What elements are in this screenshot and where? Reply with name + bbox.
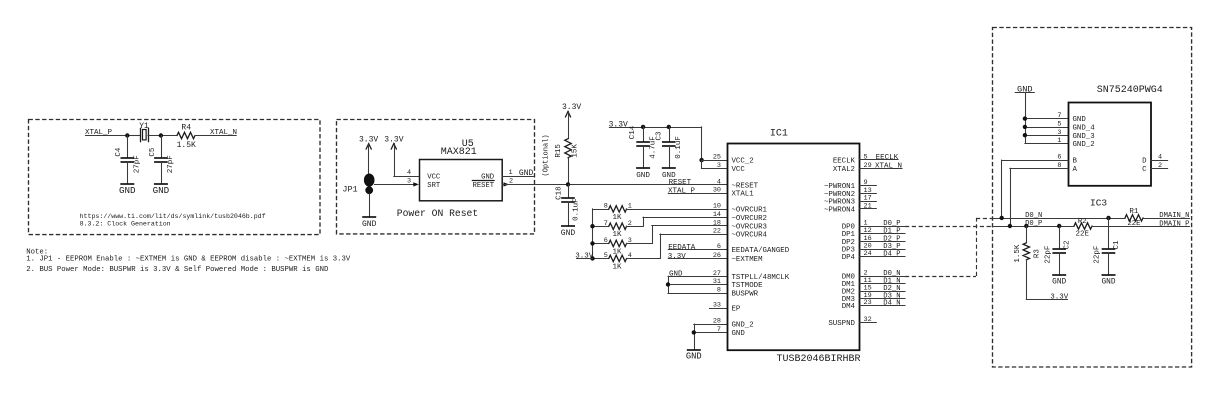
node XTAL_N (IC1) (860, 162, 903, 170)
svg-text:21: 21 (864, 202, 872, 210)
junction (692, 330, 696, 334)
node D0_N (IC3) (992, 212, 1125, 220)
svg-text:31: 31 (713, 278, 721, 286)
svg-text:15K: 15K (571, 144, 579, 158)
svg-text:~PWRON4: ~PWRON4 (824, 206, 856, 214)
svg-text:4: 4 (717, 178, 721, 186)
svg-text:1: 1 (508, 169, 512, 177)
svg-text:33: 33 (713, 302, 721, 310)
jumper JP1 (342, 174, 374, 195)
junction (566, 182, 570, 186)
svg-text:7: 7 (1057, 112, 1061, 120)
svg-text:22pF: 22pF (1044, 246, 1052, 264)
ground (561, 226, 576, 238)
svg-text:1: 1 (1057, 137, 1061, 145)
svg-text:GND: GND (1101, 279, 1115, 287)
svg-text:GND_3: GND_3 (1073, 133, 1095, 141)
section title Power ON Reset (397, 208, 478, 219)
capacitor C2 22pF (1044, 226, 1071, 275)
svg-text:Power ON Reset: Power ON Reset (397, 208, 478, 219)
svg-text:3.3V: 3.3V (1050, 294, 1069, 302)
svg-text:~OVRCUR1: ~OVRCUR1 (732, 206, 768, 214)
wire (148, 135, 177, 137)
svg-text:~OVRCUR2: ~OVRCUR2 (732, 215, 767, 223)
svg-text:GND: GND (669, 271, 683, 279)
pin stub 13 ~PWRON2 (860, 193, 877, 195)
power 3.3V (EXTMEM) (668, 253, 727, 261)
wire dashed D0_P (905, 226, 992, 228)
wire dashed D0_N crossover (905, 218, 992, 277)
svg-text:27pF: 27pF (167, 155, 175, 173)
node EEDATA (668, 244, 727, 252)
svg-text:1K: 1K (612, 248, 622, 256)
pin stub 2 C (1151, 168, 1168, 170)
junction (125, 133, 129, 137)
svg-text:3: 3 (1057, 129, 1061, 137)
svg-text:XTAL_N: XTAL_N (875, 162, 902, 170)
svg-text:18: 18 (713, 219, 721, 227)
svg-text:EECLK: EECLK (876, 154, 899, 162)
svg-text:EEDATA/GANGED: EEDATA/GANGED (732, 247, 790, 255)
pin stub 32 SUSPND (860, 322, 877, 324)
node D4_N (860, 300, 906, 308)
capacitor C3 (655, 125, 683, 169)
wire (668, 276, 727, 293)
wire (127, 135, 140, 137)
junction (1000, 216, 1111, 220)
node D2_N (860, 285, 906, 293)
wire (627, 226, 727, 244)
ground (362, 217, 377, 229)
power 3.3V (R3) (1026, 294, 1068, 302)
wire (702, 160, 728, 168)
wire (627, 234, 727, 259)
wire (710, 308, 728, 310)
junction (1023, 116, 1027, 137)
ground (1101, 275, 1115, 287)
svg-text:B: B (1073, 158, 1078, 166)
svg-text:D4_N: D4_N (883, 300, 900, 308)
svg-text:10: 10 (713, 202, 721, 210)
svg-text:~OVRCUR4: ~OVRCUR4 (732, 232, 768, 240)
svg-text:GND_4: GND_4 (1073, 124, 1096, 132)
svg-text:3: 3 (717, 162, 721, 170)
svg-text:27pF: 27pF (134, 155, 142, 173)
svg-text:8.3.2: Clock Generation: 8.3.2: Clock Generation (80, 221, 171, 228)
svg-text:C1: C1 (1113, 240, 1121, 250)
junction (699, 158, 703, 162)
svg-text:D: D (1142, 158, 1147, 166)
svg-text:GND_2: GND_2 (732, 322, 754, 330)
ground (662, 168, 676, 180)
wire (375, 182, 419, 186)
svg-text:2. BUS Power Mode: BUSPWR is 3: 2. BUS Power Mode: BUSPWR is 3.3V & Self… (26, 266, 329, 274)
svg-text:R3: R3 (1034, 249, 1042, 259)
wire resistor bus (592, 209, 594, 259)
node 3.3V rail (609, 120, 702, 160)
note text (26, 248, 351, 274)
svg-text:GND_2: GND_2 (1073, 141, 1095, 149)
svg-text:~OVRCUR3: ~OVRCUR3 (732, 223, 767, 231)
node D1_P (860, 228, 906, 236)
wire (369, 194, 371, 217)
svg-text:RESET: RESET (473, 182, 495, 190)
svg-text:JP1: JP1 (342, 185, 357, 195)
svg-text:7: 7 (604, 220, 608, 228)
node EECLK (860, 154, 899, 162)
svg-text:GND: GND (732, 330, 746, 338)
capacitor C4 (115, 136, 141, 184)
svg-text:A: A (1073, 166, 1078, 174)
node XTAL_P (IC1) (668, 187, 727, 195)
wire (1092, 226, 1161, 228)
power 3.3V (R15) (562, 103, 581, 139)
svg-text:C14: C14 (629, 125, 637, 139)
svg-text:TSTPLL/48MCLK: TSTPLL/48MCLK (732, 274, 790, 282)
svg-text:GND: GND (519, 169, 534, 178)
node D3_N (860, 292, 906, 300)
svg-text:C5: C5 (149, 147, 157, 157)
svg-text:SN75240PWG4: SN75240PWG4 (1097, 85, 1163, 96)
wire (1002, 160, 1069, 218)
junction (1008, 224, 1062, 228)
svg-text:VCC: VCC (732, 166, 746, 174)
svg-text:C: C (1142, 166, 1147, 174)
power 3.3V (JP1) (359, 136, 378, 174)
svg-text:1.5K: 1.5K (1014, 244, 1022, 263)
svg-text:1.5K: 1.5K (177, 141, 196, 150)
svg-text:XTAL2: XTAL2 (833, 166, 855, 174)
pin stub 17 ~PWRON3 (860, 201, 877, 203)
node XTAL_P (85, 129, 127, 137)
node GND (SN75240) (1015, 85, 1034, 144)
resistor R5 1K (array row 1) (593, 203, 632, 222)
wire (627, 217, 727, 226)
svg-text:5: 5 (1057, 120, 1061, 128)
svg-text:1K: 1K (612, 231, 622, 239)
svg-text:XTAL1: XTAL1 (732, 191, 755, 199)
svg-text:3.3V: 3.3V (609, 120, 628, 129)
svg-text:1. JP1 - EEPROM Enable : ~EXTM: 1. JP1 - EEPROM Enable : ~EXTMEM is GND … (26, 256, 351, 264)
resistor R2 22E (1074, 218, 1092, 239)
svg-text:D0_N: D0_N (1025, 212, 1042, 220)
svg-text:R1: R1 (1129, 208, 1139, 216)
svg-text:C2: C2 (1064, 240, 1072, 249)
svg-text:GND: GND (153, 185, 170, 196)
ground (153, 184, 170, 196)
svg-text:R4: R4 (181, 123, 191, 132)
svg-text:GND: GND (119, 185, 136, 196)
svg-text:7: 7 (717, 326, 721, 334)
svg-text:3: 3 (407, 178, 411, 186)
svg-text:DMAIN_N: DMAIN_N (1159, 212, 1189, 220)
wire RESET (502, 182, 727, 186)
node D1_N (860, 278, 906, 286)
svg-text:0.1uF: 0.1uF (572, 198, 580, 221)
power on reset section box (337, 120, 535, 234)
node D2_P (860, 235, 906, 243)
svg-text:(Optional): (Optional) (543, 134, 551, 176)
svg-text:https://www.ti.com/lit/ds/syml: https://www.ti.com/lit/ds/symlink/tusb20… (80, 213, 266, 220)
svg-text:C4: C4 (115, 147, 123, 157)
svg-text:MAX821: MAX821 (441, 147, 477, 158)
junction (666, 282, 670, 286)
svg-text:5: 5 (864, 153, 868, 161)
svg-text:TSTMODE: TSTMODE (732, 282, 764, 290)
op-amp U5 MAX821 supervisor (407, 139, 513, 201)
svg-text:XTAL_P: XTAL_P (668, 187, 696, 195)
svg-text:3.3V: 3.3V (562, 103, 581, 112)
output filter section box (993, 28, 1192, 368)
svg-text:6: 6 (717, 243, 721, 251)
capacitor C5 (149, 136, 175, 184)
svg-text:1K: 1K (612, 263, 622, 271)
svg-text:~PWRON3: ~PWRON3 (824, 198, 855, 206)
svg-text:D4_P: D4_P (883, 251, 900, 259)
svg-text:VCC_2: VCC_2 (732, 158, 754, 166)
ground (1052, 275, 1066, 287)
svg-text:SUSPND: SUSPND (828, 320, 855, 328)
power 3.3V (U5 VCC) (384, 136, 419, 177)
svg-text:DP4: DP4 (842, 254, 856, 262)
svg-text:5: 5 (604, 252, 608, 260)
text (Optional) (543, 134, 551, 176)
svg-text:SRT: SRT (427, 182, 441, 190)
svg-text:22: 22 (713, 228, 721, 236)
svg-text:4: 4 (407, 169, 411, 177)
capacitor C1 22pF (IC3) (1094, 218, 1121, 275)
svg-text:DM4: DM4 (842, 303, 856, 311)
svg-text:3.3V: 3.3V (575, 253, 594, 261)
capacitor C14 (629, 125, 657, 169)
svg-text:3.3V: 3.3V (668, 253, 687, 261)
node DMAIN_P (1159, 220, 1189, 228)
crystal Y1 (139, 122, 149, 142)
svg-text:GND: GND (1052, 279, 1066, 287)
clock generation section box (29, 120, 321, 235)
node D0_P (860, 220, 906, 228)
svg-text:RESET: RESET (669, 179, 692, 187)
resistor R8 1K (array row 4) (593, 252, 632, 271)
svg-text:GND: GND (1017, 85, 1032, 95)
svg-text:GND: GND (636, 172, 650, 180)
svg-text:~RESET: ~RESET (732, 182, 759, 190)
node D3_P (860, 243, 906, 251)
node GND (TSTPLL) (668, 271, 727, 279)
svg-text:R15: R15 (555, 144, 563, 158)
IC SN75240PWG4 (1057, 85, 1162, 186)
node D0_N (860, 270, 906, 278)
node D0_P (IC3) (992, 220, 1074, 228)
svg-text:GND: GND (362, 220, 377, 229)
node XTAL_N (210, 129, 237, 137)
ground (636, 168, 650, 180)
svg-text:1K: 1K (612, 214, 622, 222)
svg-text:TUSB2046BIRHBR: TUSB2046BIRHBR (776, 354, 860, 365)
svg-text:GND: GND (686, 351, 702, 361)
svg-text:30: 30 (713, 187, 721, 195)
pin stub 4 D (1151, 160, 1168, 162)
resistor R7 1K (array row 3) (593, 237, 632, 256)
svg-text:28: 28 (713, 318, 721, 326)
wire (1025, 119, 1068, 144)
IC3 label (1090, 197, 1107, 208)
svg-text:EP: EP (732, 306, 741, 314)
svg-text:C3: C3 (655, 131, 663, 141)
pin stub 21 ~PWRON4 (860, 208, 877, 210)
svg-text:8: 8 (717, 287, 721, 295)
svg-text:IC1: IC1 (770, 129, 788, 140)
node D4_P (860, 251, 906, 259)
wire (694, 324, 727, 350)
wire (627, 209, 727, 211)
capacitor C18 (556, 184, 581, 226)
svg-text:EECLK: EECLK (833, 157, 856, 165)
ground (119, 184, 136, 196)
svg-text:EEDATA: EEDATA (668, 244, 696, 252)
svg-text:27: 27 (713, 270, 721, 278)
svg-text:22E: 22E (1076, 231, 1090, 239)
junction (159, 133, 163, 137)
resistor R3 1.5K (1014, 226, 1041, 299)
resistor R4 (177, 123, 196, 150)
svg-text:22pF: 22pF (1094, 246, 1102, 264)
svg-text:25: 25 (713, 154, 721, 162)
node GND (U5 pin1) (502, 169, 534, 178)
reference url text (80, 213, 266, 228)
svg-text:VCC: VCC (427, 174, 441, 182)
svg-text:DMAIN_P: DMAIN_P (1159, 220, 1189, 228)
svg-text:0.1uF: 0.1uF (675, 136, 683, 159)
resistor R1 22E (1125, 208, 1143, 228)
svg-text:6: 6 (604, 237, 608, 245)
junction (590, 224, 594, 261)
svg-text:GND: GND (1073, 116, 1087, 124)
svg-text:IC3: IC3 (1090, 197, 1107, 208)
pin stub 9 ~PWRON1 (860, 185, 877, 187)
wire (195, 135, 211, 137)
svg-text:26: 26 (713, 252, 721, 260)
svg-text:14: 14 (713, 211, 721, 219)
svg-text:~PWRON1: ~PWRON1 (824, 183, 856, 191)
svg-text:GND: GND (561, 229, 576, 238)
IC IC1 TUSB2046BIRHBR (713, 129, 872, 366)
resistor R6 1K (array row 2) (593, 220, 632, 239)
ground (686, 350, 702, 361)
node RESET label (669, 179, 692, 187)
wire (1010, 168, 1068, 226)
resistor R15 (555, 139, 579, 185)
svg-text:8: 8 (604, 203, 608, 211)
svg-text:BUSPWR: BUSPWR (732, 291, 759, 299)
svg-text:~EXTMEM: ~EXTMEM (732, 256, 763, 264)
power 3.3V (resistor array) (575, 253, 594, 261)
node DMAIN_N (1143, 212, 1190, 220)
